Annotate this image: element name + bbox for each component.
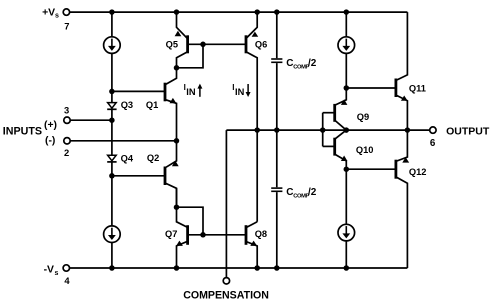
transistor Q10 [333, 138, 336, 156]
svg-text:7: 7 [64, 20, 69, 31]
wire: Q1 base node to diode Q3 anode [111, 91, 113, 102]
svg-text:-V: -V [44, 265, 54, 276]
svg-text:Q11: Q11 [409, 83, 426, 93]
svg-text:INPUTS: INPUTS [3, 126, 42, 138]
wire: Q9/Q10 base bracket [322, 113, 324, 147]
junction dot Q5 collector node [174, 65, 180, 71]
junction dot Q7/Q8 base line [200, 232, 206, 238]
wire: Q3 cathode to (+) node [111, 109, 113, 120]
arrow down (I_IN right) [247, 84, 249, 92]
arrowhead Q2 emitter [172, 161, 179, 167]
wire: output node to OUTPUT terminal [407, 129, 429, 131]
wire: (+) node to diode Q4 anode [111, 120, 113, 155]
arrowhead Q5 emitter [175, 31, 182, 37]
transistor Q12 (output PNP) [394, 160, 397, 179]
svg-text:(-): (-) [45, 136, 55, 147]
junction bottom rail / Q7 emitter [174, 265, 180, 271]
transistor Q9 [333, 104, 336, 122]
wire: Q2 base node to current source I2 [111, 176, 113, 226]
current source I3 [338, 37, 355, 54]
transistor Q5 (mirror, diode-connected) [186, 35, 189, 53]
transistor Q6 (mirror) [245, 35, 248, 53]
junction top rail / Q5 emitter [174, 9, 180, 15]
junction bottom rail / Q8 emitter [254, 265, 260, 271]
junction top rail / I1 [109, 9, 115, 15]
wire: I3 to Q9/Q11 node [345, 53, 347, 88]
svg-text:3: 3 [64, 105, 69, 116]
junction bottom rail / I4 [344, 265, 350, 271]
arrowhead Q8 emitter [250, 241, 257, 246]
arrowhead current source I2 [108, 235, 116, 240]
wire: summing node horizontal to output stage [226, 129, 407, 131]
junction dot summing line / capacitor column [274, 127, 280, 133]
current source I2 [104, 226, 121, 243]
junction dot Q1 base node [109, 89, 115, 95]
junction dot (-) emitter node [174, 138, 180, 144]
arrowhead current source I1 [108, 46, 116, 51]
wire: Q9 node to Q11 base [346, 87, 396, 89]
transistor Q11 (output NPN) [394, 79, 397, 98]
wire: I2 to -Vs rail [111, 243, 113, 269]
junction dot Q7 collector node [174, 204, 180, 210]
wire: Q10 node to Q12 base [346, 168, 396, 170]
wire: Q4 cathode to Q2 base node [111, 162, 113, 176]
terminal -Vs pin 4 [63, 265, 69, 271]
wire: +Vs top supply rail [70, 11, 408, 13]
junction dot summing line / Q6 collector [254, 127, 260, 133]
junction dot Q5/Q6 base line [200, 42, 206, 48]
svg-text:IN: IN [186, 87, 196, 97]
wire: -Vs bottom supply rail [70, 267, 408, 269]
wire: compensation line down to terminal [225, 130, 227, 278]
arrowhead Q6 emitter [252, 32, 259, 37]
diode Q3 [108, 103, 117, 109]
junction dot Q9/Q10 collector node [344, 127, 350, 133]
wire: Q6 collector down to Q8 collector [246, 52, 257, 222]
transistor Q1 (NPN input) [164, 83, 167, 102]
terminal (+) input pin 3 [64, 117, 70, 123]
svg-text:4: 4 [64, 275, 70, 286]
terminal +Vs pin 7 [63, 9, 69, 15]
arrowhead current source I4 [342, 233, 350, 238]
diode Q4 [108, 155, 117, 161]
terminal (-) input pin 2 [64, 138, 70, 144]
svg-text:+V: +V [42, 8, 55, 19]
wire: (-) input to emitter node of Q1/Q2 [70, 140, 176, 142]
svg-text:Q4: Q4 [121, 153, 134, 163]
junction dot output node [405, 127, 411, 133]
terminal COMPENSATION [223, 278, 229, 284]
svg-text:Q2: Q2 [147, 153, 159, 163]
capacitor C_COMP/2 (lower) [271, 187, 282, 189]
wire: (+) input to node A [70, 119, 112, 121]
svg-text:Q3: Q3 [121, 100, 133, 110]
arrowhead Q7 emitter [176, 241, 183, 246]
transistor Q2 (PNP input) [164, 167, 167, 186]
junction dot Q9/Q10 base bracket [320, 127, 326, 133]
wire: capacitor column lower [276, 192, 278, 268]
arrowhead Q11 emitter [401, 96, 408, 101]
wire: capacitor column upper [276, 12, 278, 58]
svg-text:Q8: Q8 [255, 229, 267, 239]
wire: Q7 base line to Q8 base [188, 234, 246, 236]
wire: right bias column current source I3 [345, 12, 347, 37]
wire: left bias column current source I1 top [111, 12, 113, 37]
arrowhead Q10 emitter [341, 156, 348, 162]
junction bottom rail / I2 [109, 265, 115, 271]
junction top rail / capacitor column [274, 9, 280, 15]
svg-text:/2: /2 [308, 58, 317, 69]
arrowhead Q9 emitter [341, 99, 348, 105]
current source I4 [338, 224, 355, 241]
terminal OUTPUT pin 6 [430, 127, 436, 133]
svg-text:Q12: Q12 [409, 167, 427, 177]
arrow up (I_IN left) [199, 88, 201, 97]
capacitor C_COMP/2 (upper) [271, 58, 282, 60]
junction dot Q10 emitter / Q12 base [344, 166, 350, 172]
svg-text:Q5: Q5 [166, 40, 178, 50]
wire: Q10 node to current source I4 [345, 169, 347, 224]
junction dot (+) input node [109, 117, 115, 123]
svg-text:s: s [55, 13, 59, 20]
wire: Q7 base-collector tie [177, 207, 204, 235]
svg-text:Q9: Q9 [357, 112, 369, 122]
svg-text:OUTPUT: OUTPUT [446, 125, 490, 137]
svg-text:Q1: Q1 [146, 100, 158, 110]
svg-text:Q6: Q6 [255, 39, 267, 49]
junction bottom rail / capacitor column [274, 265, 280, 271]
junction top rail / Q6 emitter [254, 9, 260, 15]
wire: Q2 collector to Q7 node [176, 188, 178, 207]
junction top rail / I3 [344, 9, 350, 15]
transistor Q7 (mirror, diode-connected) [186, 225, 189, 245]
svg-text:/2: /2 [308, 187, 317, 198]
svg-text:IN: IN [235, 87, 245, 97]
svg-text:Q7: Q7 [165, 229, 177, 239]
svg-text:Q10: Q10 [356, 145, 374, 155]
junction dot Q9 emitter / Q11 base [344, 85, 350, 91]
svg-text:(+): (+) [44, 120, 57, 131]
svg-text:s: s [55, 270, 59, 277]
wire: Q5 base-collector tie [177, 44, 204, 68]
wire: capacitor column middle [276, 63, 278, 187]
junction dot Q2 base node [109, 173, 115, 179]
current source I1 [104, 37, 121, 54]
transistor Q8 (mirror) [245, 225, 248, 245]
arrowhead current source I3 [342, 46, 350, 51]
arrowhead Q1 emitter [170, 98, 177, 103]
svg-text:COMPENSATION: COMPENSATION [183, 290, 269, 302]
arrowhead Q12 emitter [402, 157, 409, 162]
svg-text:2: 2 [64, 147, 69, 158]
svg-text:6: 6 [430, 138, 436, 149]
wire: I1 to Q1 base node [111, 53, 113, 91]
wire: I4 to -Vs rail [345, 241, 347, 268]
wire: Q5 base line to Q6 base [188, 43, 246, 45]
